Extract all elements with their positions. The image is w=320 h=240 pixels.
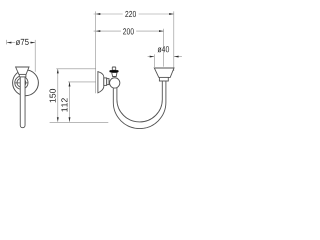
dimension 112 [68, 82, 96, 122]
handle black disc [109, 70, 118, 72]
cradle bell side [154, 68, 174, 77]
cradle cup front [16, 67, 29, 74]
cup collar front [19, 74, 26, 77]
wall flange circle front [13, 70, 39, 96]
dimension 150 [56, 69, 95, 122]
hose wand front [20, 77, 25, 128]
dimension o75 [7, 40, 36, 72]
handle stem [112, 73, 117, 77]
extension line hose bottom [50, 121, 109, 123]
dimension 220 [94, 13, 174, 15]
hose inner edge [117, 81, 162, 122]
dimension 200 [94, 30, 164, 32]
hose outer edge [113, 81, 166, 129]
bell collar side [159, 77, 168, 81]
extension line 200 right [163, 29, 165, 67]
ball joint rings front [15, 76, 28, 89]
extension line 220 right [173, 11, 175, 71]
collar piece 2 [107, 79, 109, 85]
dimension o40 [148, 54, 182, 67]
wall escutcheon side [98, 72, 104, 93]
collar piece 1 [104, 78, 107, 86]
ball equator line front [15, 82, 28, 84]
ball joint side [110, 78, 120, 88]
extension line wall [95, 11, 97, 93]
handle cap [112, 67, 115, 70]
